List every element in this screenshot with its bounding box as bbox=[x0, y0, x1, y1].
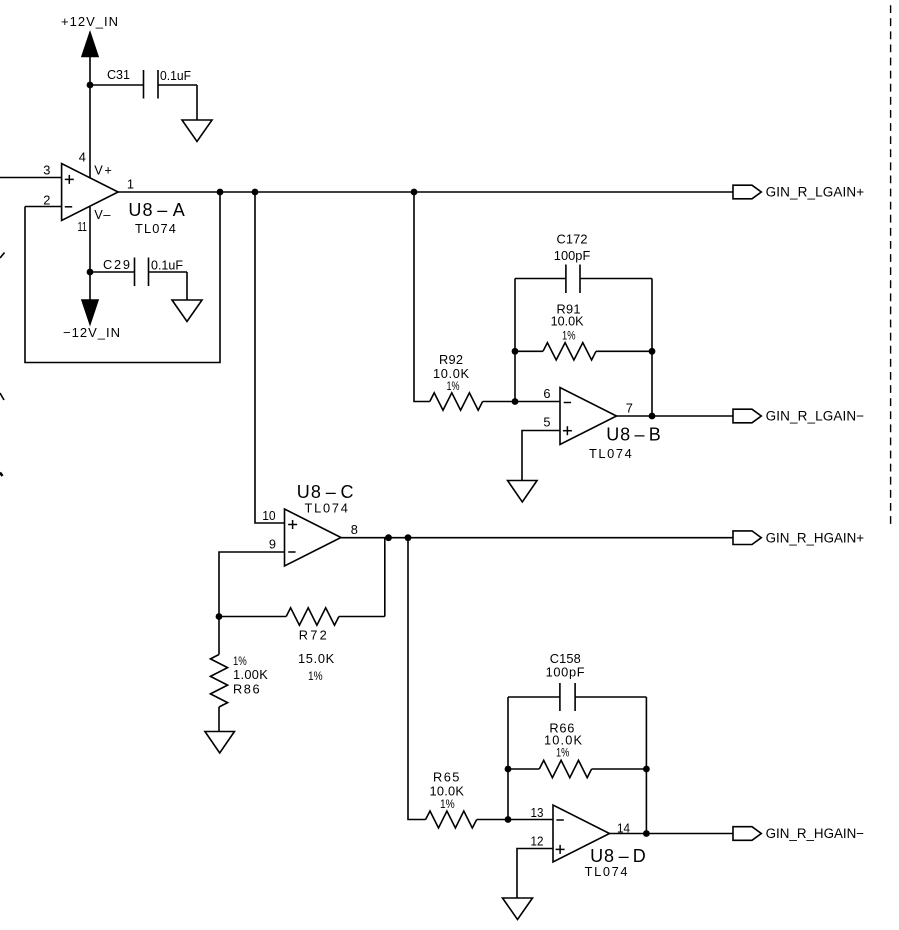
node V- junction bbox=[87, 269, 94, 276]
op-amp U8-B TL074 bbox=[543, 386, 660, 461]
svg-text:GIN_R_HGAIN−: GIN_R_HGAIN− bbox=[766, 826, 865, 841]
node output junction U8-B bbox=[649, 413, 656, 420]
op-amp U8-C TL074 bbox=[262, 482, 358, 566]
wire feedback box U8-A bbox=[25, 192, 220, 363]
svg-text:100pF: 100pF bbox=[554, 248, 591, 263]
svg-text:1.00K: 1.00K bbox=[233, 667, 268, 682]
wire feedback left U8-B bbox=[514, 279, 516, 402]
svg-text:R72: R72 bbox=[299, 628, 327, 643]
connector GIN_R_HGAIN+ bbox=[733, 530, 864, 545]
wire pin 5 bbox=[522, 431, 560, 481]
capacitor C172 100pF bbox=[515, 231, 652, 293]
node R66 left junction bbox=[505, 766, 512, 773]
svg-text:TL074: TL074 bbox=[305, 501, 348, 516]
off-page tick 3 bbox=[0, 473, 3, 477]
svg-text:U8–C: U8–C bbox=[297, 482, 354, 502]
wire R72 to output bbox=[384, 538, 386, 617]
resistor R86 1.00K 1% bbox=[210, 617, 268, 732]
svg-text:9: 9 bbox=[269, 536, 276, 551]
svg-text:10.0K: 10.0K bbox=[551, 314, 584, 329]
svg-text:GIN_R_HGAIN+: GIN_R_HGAIN+ bbox=[766, 530, 865, 545]
svg-text:TL074: TL074 bbox=[135, 221, 176, 236]
wire feedback left U8-D bbox=[507, 697, 509, 820]
node V+ junction bbox=[87, 82, 94, 89]
svg-text:C29: C29 bbox=[103, 257, 130, 272]
svg-text:1: 1 bbox=[127, 177, 134, 192]
wire C31 to ground bbox=[196, 85, 198, 120]
svg-text:TL074: TL074 bbox=[589, 446, 632, 461]
node junction to U8-C bbox=[252, 189, 259, 196]
svg-text:12: 12 bbox=[531, 833, 544, 848]
svg-text:1%: 1% bbox=[447, 381, 460, 393]
svg-text:1%: 1% bbox=[308, 671, 323, 683]
wire pin 12 bbox=[517, 849, 553, 899]
svg-text:11: 11 bbox=[78, 219, 88, 234]
svg-text:TL074: TL074 bbox=[585, 864, 628, 879]
wire output U8-B net LGAIN- bbox=[617, 415, 734, 417]
svg-text:+12V_IN: +12V_IN bbox=[61, 14, 118, 29]
wire output U8-D net HGAIN- bbox=[610, 833, 734, 835]
capacitor C31 0.1uF bbox=[90, 67, 197, 99]
node R72/R86 junction bbox=[216, 613, 223, 620]
svg-text:U8–B: U8–B bbox=[606, 425, 661, 445]
resistor R65 10.0K 1% bbox=[426, 769, 508, 828]
capacitor C29 0.1uF bbox=[90, 257, 187, 286]
svg-text:10.0K: 10.0K bbox=[430, 784, 465, 799]
svg-text:V+: V+ bbox=[94, 163, 112, 178]
resistor R92 10.0K 1% bbox=[430, 352, 515, 410]
svg-text:3: 3 bbox=[43, 163, 50, 178]
wire output U8-A net LGAIN+ bbox=[118, 191, 733, 193]
wire pin 3 input bbox=[0, 177, 62, 179]
svg-text:1%: 1% bbox=[556, 747, 569, 759]
svg-text:GIN_R_LGAIN+: GIN_R_LGAIN+ bbox=[766, 185, 865, 200]
node pin13 junction bbox=[505, 816, 512, 823]
svg-text:0.1uF: 0.1uF bbox=[160, 68, 191, 83]
power flag +12V_IN bbox=[61, 14, 118, 57]
connector GIN_R_HGAIN- bbox=[733, 826, 864, 841]
node junction feedback bbox=[217, 189, 224, 196]
wire pin 6 bbox=[515, 401, 560, 403]
svg-text:R92: R92 bbox=[439, 352, 463, 367]
svg-text:10.0K: 10.0K bbox=[544, 733, 582, 748]
ground (U8-B pin5) bbox=[508, 481, 538, 503]
ground (U8-D pin12) bbox=[503, 898, 533, 920]
svg-text:U8–D: U8–D bbox=[590, 846, 646, 866]
svg-text:2: 2 bbox=[43, 192, 50, 207]
op-amp U8-A TL074 bbox=[43, 150, 185, 237]
svg-text:100pF: 100pF bbox=[546, 665, 585, 680]
svg-text:7: 7 bbox=[626, 400, 633, 415]
node output junction U8-D bbox=[643, 830, 650, 837]
svg-text:6: 6 bbox=[543, 386, 550, 401]
node R91 left junction bbox=[512, 348, 519, 355]
svg-text:R65: R65 bbox=[433, 769, 459, 784]
svg-text:0.1uF: 0.1uF bbox=[151, 258, 183, 273]
node junction to U8-D bbox=[405, 534, 412, 541]
svg-text:10: 10 bbox=[262, 508, 275, 523]
svg-text:10.0K: 10.0K bbox=[433, 366, 469, 381]
ground (C29) bbox=[172, 300, 202, 322]
svg-text:C158: C158 bbox=[550, 651, 581, 666]
wire V- rail bbox=[89, 207, 91, 302]
wire output U8-C net HGAIN+ bbox=[341, 537, 733, 539]
off-page tick 2 bbox=[0, 393, 4, 400]
wire feedback right U8-D bbox=[645, 697, 647, 834]
off-page tick 1 bbox=[0, 253, 5, 259]
connector GIN_R_LGAIN+ bbox=[733, 185, 864, 200]
node pin6 junction bbox=[512, 398, 519, 405]
connector GIN_R_LGAIN- bbox=[733, 409, 864, 424]
svg-text:C31: C31 bbox=[107, 67, 130, 82]
svg-text:C172: C172 bbox=[557, 231, 588, 246]
node junction to R92 bbox=[411, 189, 418, 196]
wire V+ rail bbox=[89, 48, 91, 178]
svg-text:GIN_R_LGAIN−: GIN_R_LGAIN− bbox=[766, 409, 865, 424]
svg-text:8: 8 bbox=[351, 522, 358, 537]
resistor R66 10.0K 1% bbox=[508, 721, 646, 778]
svg-text:R86: R86 bbox=[233, 682, 260, 697]
svg-text:15.0K: 15.0K bbox=[298, 651, 335, 666]
wire pin 2 input bbox=[25, 206, 62, 208]
wire to R65 bbox=[408, 538, 426, 820]
wire pin 13 bbox=[508, 819, 553, 821]
resistor R91 10.0K 1% bbox=[515, 301, 652, 360]
svg-text:V–: V– bbox=[94, 207, 111, 222]
op-amp U8-D TL074 bbox=[531, 805, 646, 879]
svg-text:13: 13 bbox=[531, 805, 544, 820]
svg-text:U8–A: U8–A bbox=[128, 200, 184, 220]
wire to U8-C pin 10 bbox=[255, 192, 285, 523]
svg-text:4: 4 bbox=[79, 150, 86, 165]
node R91 right junction bbox=[649, 348, 656, 355]
wire pin 9 bbox=[219, 552, 285, 617]
dashed sheet border bbox=[890, 5, 892, 528]
resistor R72 15.0K 1% bbox=[219, 608, 385, 683]
ground (C31) bbox=[182, 120, 212, 142]
node feedback junction bbox=[385, 534, 392, 541]
power flag -12V_IN bbox=[63, 300, 120, 340]
svg-text:1%: 1% bbox=[440, 799, 455, 811]
node R66 right junction bbox=[643, 766, 650, 773]
wire C29 to ground bbox=[186, 272, 188, 300]
wire to R92 bbox=[414, 192, 430, 402]
capacitor C158 100pF bbox=[508, 651, 646, 711]
ground (R86) bbox=[205, 732, 235, 754]
svg-text:1%: 1% bbox=[562, 330, 576, 342]
svg-text:5: 5 bbox=[543, 415, 550, 430]
wire feedback right U8-B bbox=[651, 279, 653, 417]
svg-text:−12V_IN: −12V_IN bbox=[63, 325, 120, 340]
